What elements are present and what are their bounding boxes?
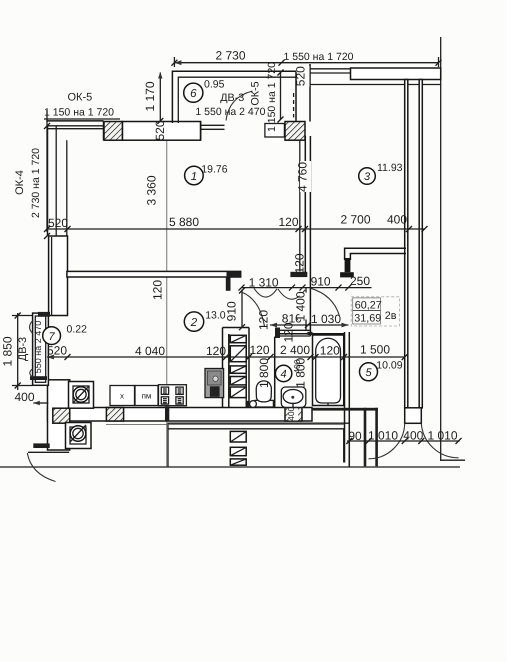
svg-text:1 500: 1 500 (360, 343, 390, 357)
riser unit A (69, 382, 94, 409)
svg-text:120: 120 (282, 322, 296, 342)
wall room3 right double wall (405, 80, 423, 408)
wall top-left window band OK-5 top (47, 121, 104, 129)
dim vertical 1400 hall (294, 288, 310, 331)
wire short bottom-right stub (441, 459, 465, 461)
wall wc left (246, 328, 249, 408)
kitchen sink (205, 369, 224, 398)
dishwasher box pm (135, 386, 158, 406)
svg-text:120: 120 (151, 280, 165, 300)
svg-text:400: 400 (15, 390, 35, 404)
svg-text:1 150 на 1 720: 1 150 на 1 720 (266, 62, 278, 132)
wall left exterior bottom pier (48, 380, 70, 450)
svg-text:4: 4 (281, 369, 287, 381)
svg-text:550 на 2 470: 550 на 2 470 (33, 321, 43, 374)
svg-text:400: 400 (403, 428, 423, 442)
svg-text:120: 120 (293, 253, 307, 273)
svg-text:ОК-5: ОК-5 (68, 92, 93, 104)
dim vertical 1850 closet (1, 313, 33, 391)
svg-text:1 800: 1 800 (257, 358, 271, 388)
svg-text:3: 3 (364, 171, 371, 183)
svg-text:5 880: 5 880 (169, 215, 199, 229)
svg-text:0.22: 0.22 (67, 324, 88, 336)
door hall semicircle 2 (278, 289, 305, 299)
svg-text:400: 400 (286, 406, 296, 420)
wall left window OK-4 (48, 121, 123, 236)
wall entry lobby black bits bottom-left (28, 443, 69, 452)
wall room3 bottom shelf (340, 248, 406, 277)
svg-text:3 360: 3 360 (145, 175, 159, 205)
svg-text:2в: 2в (385, 310, 397, 322)
svg-text:400: 400 (292, 359, 302, 373)
svg-text:1 550 на 2 470: 1 550 на 2 470 (195, 106, 265, 118)
toilet paper holder (246, 401, 257, 408)
svg-text:2 400: 2 400 (280, 343, 310, 357)
svg-text:5: 5 (365, 367, 372, 379)
svg-text:1 400: 1 400 (294, 291, 308, 321)
wall room3 top band with window (310, 68, 441, 85)
svg-text:4 040: 4 040 (135, 344, 165, 358)
svg-text:ОК-4: ОК-4 (14, 170, 26, 195)
room circle 5 (360, 363, 378, 381)
svg-text:1 010: 1 010 (427, 428, 457, 442)
wall lower corridor outline (106, 423, 349, 467)
wall wc/bath partition (274, 337, 276, 408)
dim row G entry (346, 428, 461, 444)
wall entry thick bar (312, 408, 378, 467)
toilet (255, 381, 274, 407)
room circle 6 (184, 83, 203, 102)
svg-text:2: 2 (190, 317, 198, 329)
wall bath right / corridor wall (345, 332, 350, 467)
svg-text:4 760: 4 760 (296, 162, 310, 192)
room circle 2 (184, 312, 203, 331)
riser unit B (66, 423, 92, 449)
svg-text:13.0: 13.0 (205, 309, 226, 321)
svg-text:2 730 на 1 720: 2 730 на 1 720 (30, 148, 42, 218)
svg-text:10.09: 10.09 (376, 359, 402, 371)
room circle 1 (185, 166, 204, 185)
svg-text:1 170: 1 170 (143, 81, 157, 111)
wall room1/kitchen divider (67, 271, 241, 290)
svg-text:910: 910 (311, 275, 331, 289)
wall hall bottom / bathroom top (223, 328, 345, 339)
svg-text:120: 120 (320, 344, 340, 358)
dim vertical 520 balcony right (293, 66, 309, 87)
dim row D hall top (239, 274, 372, 291)
svg-text:2 700: 2 700 (340, 213, 370, 227)
dim vertical 400 in hatch (286, 406, 298, 420)
room circle 3 (359, 168, 376, 185)
svg-text:7: 7 (49, 331, 56, 343)
wall kitchen/wc vertical (223, 328, 229, 408)
wall bottom band kitchen (48, 407, 313, 424)
svg-text:520: 520 (47, 344, 67, 358)
dim row B OK-5 label (44, 92, 120, 123)
dim 400 left bottom (15, 390, 49, 405)
dim row A top (171, 49, 441, 68)
svg-text:1 010: 1 010 (368, 428, 398, 442)
wall entry pylon (405, 408, 422, 424)
stove (159, 385, 187, 406)
wall balcony parapet room 6 (172, 64, 310, 123)
svg-text:ДВ-3: ДВ-3 (220, 92, 244, 104)
fridge box x (110, 386, 135, 406)
svg-text:400: 400 (387, 213, 407, 227)
svg-text:ДВ-3: ДВ-3 (17, 337, 29, 361)
door room3 arc (311, 288, 340, 315)
wall left pier below window (49, 236, 68, 316)
svg-text:520: 520 (293, 66, 307, 86)
svg-text:ОК-5: ОК-5 (250, 81, 262, 105)
door entry arc right (421, 423, 458, 458)
door hall semicircle 1 (254, 288, 277, 297)
svg-text:0.95: 0.95 (204, 79, 225, 91)
svg-text:31,69: 31,69 (354, 312, 381, 324)
wall room1 / hall vertical (300, 136, 311, 336)
svg-text:1 150 на 1 720: 1 150 на 1 720 (44, 107, 114, 119)
label apartment table (351, 297, 399, 326)
svg-text:11.93: 11.93 (377, 162, 403, 174)
door kitchen arc (243, 293, 265, 327)
dim vertical 4760 room3 wall (296, 161, 312, 192)
wall hall door post black (290, 272, 307, 277)
dim vertical left OK-4 (14, 119, 50, 239)
svg-text:120: 120 (206, 344, 226, 358)
svg-text:90: 90 (348, 429, 362, 443)
svg-text:120: 120 (249, 343, 269, 357)
bathtub (313, 335, 344, 406)
wire right boundary vertical line (440, 37, 442, 461)
svg-text:пм: пм (142, 392, 152, 401)
vent blocks column (230, 335, 246, 465)
wash basin (281, 387, 306, 408)
svg-text:19.76: 19.76 (201, 163, 227, 175)
dim row E hall mid (270, 312, 349, 328)
svg-text:1 850: 1 850 (1, 336, 15, 366)
wire bottom boundary horizontal line (0, 466, 460, 468)
svg-text:1: 1 (191, 171, 197, 183)
node axis line A (166, 121, 168, 467)
svg-text:520: 520 (48, 216, 68, 230)
svg-text:х: х (120, 392, 124, 401)
svg-text:1 310: 1 310 (249, 276, 279, 290)
label room areas (67, 162, 403, 371)
svg-text:2 730: 2 730 (215, 49, 245, 63)
wall room1 top band with hatch blocks (104, 122, 305, 141)
door balcony DV-3 arc (226, 91, 253, 121)
room circle 7 (43, 327, 61, 345)
svg-text:60,27: 60,27 (355, 299, 382, 311)
dim row F kitchen bottom (47, 343, 408, 361)
svg-text:520: 520 (153, 120, 167, 140)
dim vertical 1150na1720 balcony (266, 62, 284, 132)
svg-text:120: 120 (257, 310, 271, 330)
dim vertical 1170 balcony left (143, 72, 163, 124)
svg-text:250: 250 (350, 274, 370, 288)
dim row C under room1 (44, 213, 428, 233)
door lobby arc bottom-left (27, 453, 55, 482)
door entry arc left (369, 423, 405, 459)
room circle 4 (275, 365, 291, 381)
svg-text:1 030: 1 030 (311, 312, 341, 326)
wall closet room7 box (30, 312, 50, 385)
svg-text:910: 910 (224, 301, 238, 321)
svg-text:6: 6 (190, 88, 197, 100)
svg-text:1 550 на 1 720: 1 550 на 1 720 (283, 51, 353, 63)
svg-text:120: 120 (278, 215, 298, 229)
label balcony texts (195, 79, 265, 118)
dim vertical 910 kitchen door (224, 288, 245, 331)
